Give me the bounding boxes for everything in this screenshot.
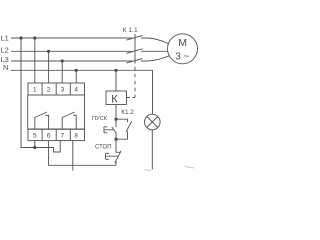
svg-text:1: 1 [33,87,37,94]
svg-text:8: 8 [74,132,78,139]
svg-text:3: 3 [61,87,65,94]
svg-text:3 ~: 3 ~ [175,51,189,62]
svg-text:К: К [111,94,118,106]
svg-text:5: 5 [33,132,37,139]
svg-text:7: 7 [61,132,65,139]
svg-text:N: N [3,63,8,72]
svg-text:М: М [178,37,187,49]
svg-text:L1: L1 [1,33,9,42]
svg-text:ПУСК: ПУСК [92,116,108,122]
svg-text:К1.2: К1.2 [121,109,134,116]
svg-text:К 1.1: К 1.1 [123,27,138,34]
svg-text:4: 4 [74,87,78,94]
svg-text:6: 6 [47,132,51,139]
svg-text:СТОП: СТОП [95,145,112,151]
svg-text:2: 2 [47,87,51,94]
svg-text:L2: L2 [1,45,9,54]
